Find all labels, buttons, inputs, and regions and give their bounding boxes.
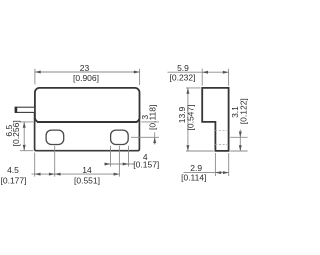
dimension 2.9 extension lines	[215, 153, 228, 176]
svg-text:2.9: 2.9	[190, 163, 202, 173]
svg-text:4.5: 4.5	[7, 165, 19, 175]
slot hole right	[111, 130, 129, 144]
dimension 23 arrows	[35, 71, 140, 74]
dimension 4.5/14 line	[32, 173, 120, 175]
side view hidden slot line top	[215, 130, 228, 132]
dimension 3.1 extension lines	[230, 137, 247, 151]
dimension 3 arrow	[153, 137, 156, 143]
dimension 2.9 arrows	[215, 171, 228, 174]
dimension 13.9 line	[187, 88, 189, 151]
svg-text:[0.906]: [0.906]	[73, 73, 99, 83]
dimension 6.5 arrows	[23, 122, 26, 151]
dimension 4 arrows	[105, 163, 129, 166]
dimension 2.9 line	[184, 172, 229, 174]
dimension 13.9 extension lines	[186, 88, 214, 151]
side view profile outline	[202, 88, 228, 151]
dimension 3 line	[154, 132, 156, 144]
svg-text:[0.547]: [0.547]	[185, 105, 195, 131]
dimension 3.1 arrows	[239, 132, 242, 152]
dimension 6.5 extension lines	[20, 122, 33, 151]
svg-text:[0.551]: [0.551]	[74, 175, 100, 185]
dimension 4 line	[104, 163, 135, 165]
main view lower flange outline	[35, 112, 140, 151]
svg-text:[0.256]: [0.256]	[11, 120, 21, 146]
wire end cap	[15, 107, 18, 113]
svg-text:[0.114]: [0.114]	[181, 173, 206, 183]
dimension 4.5 arrows	[35, 173, 55, 176]
svg-text:[0.118]: [0.118]	[148, 105, 158, 130]
svg-text:[0.122]: [0.122]	[238, 98, 248, 124]
dimension 4.5 and 14 extension lines	[35, 146, 55, 177]
wire lead left	[15, 107, 34, 112]
dimension 14 arrows	[55, 173, 120, 176]
main view upper housing outline	[35, 88, 140, 122]
step parting line	[37, 121, 137, 123]
slot hole left	[46, 130, 64, 144]
dimension 3 extension lines	[131, 122, 159, 137]
dimension 5.9 extension lines	[202, 69, 228, 86]
dimension 23 extension lines	[35, 69, 140, 85]
side view hidden slot line bottom	[215, 144, 228, 146]
svg-text:[0.157]: [0.157]	[133, 159, 159, 169]
dimension 13.9 arrows	[186, 88, 189, 151]
svg-text:[0.177]: [0.177]	[1, 175, 27, 185]
svg-text:5.9: 5.9	[177, 63, 189, 73]
dimension 5.9 line	[168, 71, 229, 73]
dimension 4 slot extension lines	[111, 146, 129, 177]
svg-text:[0.232]: [0.232]	[170, 73, 196, 83]
svg-text:14: 14	[82, 165, 92, 175]
dimension 23 line	[35, 71, 140, 73]
dimension 6.5 line	[23, 122, 25, 151]
svg-text:23: 23	[80, 63, 90, 73]
dimension 5.9 arrows	[202, 71, 228, 74]
dimension 3.1 line	[239, 130, 241, 152]
